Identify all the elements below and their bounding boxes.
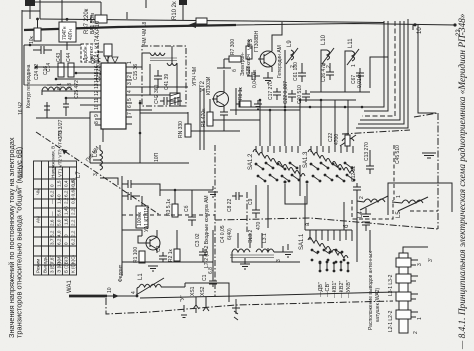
rod top line	[403, 247, 428, 253]
inductor L3.1 winding	[256, 249, 274, 252]
svg-text:SA1.3: SA1.3	[303, 151, 309, 168]
svg-text:7: 7	[127, 112, 133, 115]
ground bottom amp	[148, 266, 158, 271]
transformer T1 box	[59, 22, 76, 42]
capacitor C8b	[362, 222, 370, 231]
wire pin11 net	[66, 97, 95, 99]
wire right col	[356, 200, 358, 262]
svg-text:RN 330: RN 330	[178, 121, 184, 138]
capacitor C6	[122, 192, 140, 200]
resistor R3	[172, 204, 178, 217]
svg-text:УА1 КТ315: УА1 КТ315	[144, 207, 150, 232]
resistor R2 1k	[174, 249, 180, 261]
wire left col	[23, 45, 25, 85]
svg-text:0,01мк: 0,01мк	[357, 72, 363, 88]
ground right	[208, 186, 218, 197]
wire bottom solid bus	[140, 292, 396, 298]
wire IC top bus	[24, 84, 95, 86]
wire bus junctions	[36, 18, 39, 21]
svg-text:6,2: 6,2	[71, 238, 76, 245]
svg-text:3: 3	[276, 259, 282, 262]
arrow on diagonal	[62, 149, 68, 155]
core line	[230, 255, 274, 258]
svg-text:С8 22: С8 22	[227, 198, 233, 212]
svg-text:ДА1 К174ХА10: ДА1 К174ХА10	[95, 20, 101, 62]
svg-text:—КВ2”: —КВ2”	[339, 281, 345, 298]
wire top of IC to speaker net	[107, 45, 109, 63]
svg-text:6,8: 6,8	[208, 267, 214, 274]
svg-text:1,6: 1,6	[64, 218, 69, 225]
capacitor C17	[273, 88, 281, 100]
svg-text:С43: С43	[56, 53, 62, 62]
capacitor C13 270	[366, 162, 374, 174]
svg-text:6: 6	[127, 105, 133, 108]
svg-text:0: 0	[50, 184, 55, 187]
wire C1 down	[212, 230, 214, 276]
SA1.1 stubs	[310, 230, 352, 241]
wire top-left drop	[39, 0, 41, 19]
svg-text:6,2: 6,2	[50, 190, 55, 197]
tick on bus	[126, 12, 128, 19]
capacitor C14	[33, 46, 52, 54]
svg-text:С25 472: С25 472	[74, 80, 80, 99]
svg-text:6(40): 6(40)	[227, 228, 233, 240]
wire drop a	[259, 100, 261, 146]
svg-text:1,45: 1,45	[64, 206, 69, 215]
coil former 2	[396, 274, 411, 283]
svg-text:1,5: 1,5	[57, 180, 62, 187]
svg-text:Б(З): Б(З)	[64, 255, 69, 264]
svg-text:С1: С1	[202, 274, 208, 281]
ground C8	[361, 208, 371, 219]
svg-text:3: 3	[127, 82, 133, 85]
capacitor C1 6.8	[209, 276, 217, 287]
wire right col down	[412, 25, 414, 30]
wire L9 frame	[284, 50, 286, 107]
svg-text:L1: L1	[138, 273, 144, 280]
svg-text:22: 22	[456, 29, 462, 36]
wire vhf v4	[360, 21, 400, 120]
capacitor C12 82	[353, 183, 361, 196]
svg-text:2: 2	[359, 196, 365, 199]
svg-text:2,2: 2,2	[71, 219, 76, 226]
svg-text:4700: 4700	[334, 134, 340, 145]
svg-text:—КВ1”: —КВ1”	[332, 281, 338, 298]
wire vhf jog	[370, 57, 388, 88]
wire vhf v2	[364, 21, 388, 111]
dash-dot vertical inner	[437, 113, 439, 229]
svg-text:Расположение выводов антенных: Расположение выводов антенных	[368, 251, 374, 330]
inductor L11	[352, 51, 355, 61]
svg-text:—ДВ”: —ДВ”	[318, 282, 324, 297]
wire R36 up	[37, 19, 39, 28]
junction arrow on bus	[188, 22, 196, 28]
wire L4 left	[356, 196, 358, 201]
svg-text:транзисторов относительно выво: транзисторов относительно вывода “общий”…	[15, 147, 24, 338]
svg-text:6,2: 6,2	[57, 238, 62, 245]
wire L6	[99, 145, 101, 150]
svg-text:10: 10	[94, 104, 100, 110]
L11 arrow	[347, 49, 359, 65]
earth symbol	[181, 305, 187, 318]
wire L10 frame	[321, 50, 327, 92]
svg-text:ГТ308ВН: ГТ308ВН	[254, 31, 260, 52]
wires below U1	[102, 129, 104, 142]
svg-text:L7: L7	[76, 171, 82, 178]
SA1.2 contacts row1	[255, 162, 299, 171]
svg-text:Гетеродин АМ: Гетеродин АМ	[277, 45, 283, 78]
wire down to L1 area	[121, 262, 123, 276]
capacitor C22b	[288, 90, 296, 102]
SA1.1 contact slants	[312, 250, 342, 254]
connector XS1	[193, 297, 199, 313]
svg-text:0,4: 0,4	[64, 180, 69, 187]
wire bottom bus amp	[122, 261, 213, 263]
diode VD2	[112, 57, 118, 63]
wire C26	[329, 63, 331, 68]
svg-text:R7 300: R7 300	[230, 39, 236, 55]
svg-text:0: 0	[64, 242, 69, 245]
svg-text:С23 2200: С23 2200	[96, 60, 102, 82]
svg-text:Сб: Сб	[184, 205, 190, 212]
node dot	[29, 44, 32, 47]
wire pin lines right going down	[132, 94, 160, 96]
svg-text:L4: L4	[358, 211, 364, 218]
svg-text:2,6: 2,6	[50, 219, 55, 226]
svg-text:L9: L9	[287, 40, 293, 47]
svg-text:— 8.4.1. Принципиальная электр: — 8.4.1. Принципиальная электрическая сх…	[457, 13, 468, 350]
svg-text:—УКВ”: —УКВ”	[346, 280, 352, 298]
svg-text:С3: С3	[156, 245, 162, 252]
wire R9 top	[248, 40, 250, 46]
capacitor C8 22	[232, 192, 243, 200]
wire drop e	[320, 100, 322, 146]
caption right edge	[457, 13, 468, 350]
SA1.3 contacts row1	[310, 162, 354, 171]
coil former 3	[396, 292, 411, 301]
L1 stubs	[137, 283, 185, 288]
SA1.2 contacts row2	[257, 174, 301, 183]
svg-text:Напряжения, В: Напряжения, В	[51, 146, 56, 178]
wire C7	[191, 190, 193, 213]
pins left of U1	[95, 67, 101, 125]
wire vhf v6	[356, 19, 408, 128]
svg-text:3(И): 3(И)	[57, 255, 62, 264]
wire horizontal y163	[90, 162, 189, 164]
wire vert x300	[299, 165, 301, 196]
wire top edge	[30, 1, 101, 3]
svg-text:2,2: 2,2	[71, 230, 76, 237]
wire grid h2	[230, 109, 300, 111]
svg-text:R8 1к: R8 1к	[238, 86, 244, 100]
capacitor C41	[154, 70, 162, 88]
dash-dot horizontal mid	[342, 130, 410, 134]
wire bottom dash-dot chassis	[106, 298, 393, 314]
svg-text:—: —	[50, 211, 55, 216]
inductor L7 winding	[42, 87, 72, 90]
capacitor C20	[171, 97, 182, 105]
wire R8	[236, 103, 239, 105]
transistor Q2 VT2 circle	[214, 92, 229, 107]
core lines	[150, 58, 177, 61]
svg-text:WA1: WA1	[67, 280, 73, 293]
wire from connector	[29, 6, 31, 19]
svg-text:С4 0,05: С4 0,05	[220, 225, 226, 243]
wire R3	[174, 190, 176, 204]
svg-text:3’: 3’	[428, 258, 434, 262]
connector XS2	[203, 297, 209, 311]
resistor R8	[239, 101, 251, 107]
svg-text:ЭL3.2: ЭL3.2	[248, 229, 254, 243]
svg-text:С9: С9	[248, 198, 254, 205]
svg-text:“У”: “У”	[180, 295, 186, 302]
ferrite rod	[399, 253, 408, 333]
svg-text:4,0: 4,0	[57, 230, 62, 237]
note text left edge	[7, 137, 24, 338]
wire C9	[255, 185, 257, 206]
svg-text:9: 9	[94, 114, 100, 117]
wire pin16 net	[36, 66, 95, 68]
node 10	[413, 23, 416, 26]
svg-text:С61 180: С61 180	[293, 62, 299, 81]
inductor L5	[402, 200, 423, 203]
connector block top-left	[25, 0, 35, 6]
svg-text:1: 1	[351, 64, 357, 67]
svg-text:1: 1	[127, 61, 133, 64]
wire sec out	[171, 46, 173, 63]
wire h230	[122, 230, 142, 236]
wire pin15 net	[76, 72, 95, 74]
ground below C9	[240, 258, 250, 269]
svg-text:SA1.2: SA1.2	[248, 153, 254, 170]
svg-text:4: 4	[127, 90, 133, 93]
inductor L9	[291, 50, 294, 60]
wire pin1 to L8	[132, 53, 150, 67]
svg-text:Контур гетеродина: Контур гетеродина	[26, 64, 32, 108]
svg-text:б: б	[344, 224, 350, 228]
svg-text:13: 13	[94, 83, 100, 89]
SA1.1 top bus	[305, 229, 352, 231]
inductor L4	[364, 199, 385, 202]
svg-text:0: 0	[57, 194, 62, 197]
wire drop g	[347, 100, 349, 146]
svg-text:6,2: 6,2	[64, 190, 69, 197]
capacitor C26	[326, 68, 334, 80]
dash-dot input box top	[215, 218, 438, 229]
svg-text:L11: L11	[348, 38, 354, 48]
switch SA1.1 contact row	[308, 238, 348, 259]
resistor R7 300	[229, 56, 241, 62]
wire vertical junction col	[139, 100, 141, 163]
capacitor C61	[298, 68, 306, 82]
node dots	[259, 99, 262, 102]
wire drop d	[299, 100, 301, 146]
capacitor C9 470	[252, 206, 260, 218]
capacitor C23	[63, 98, 69, 116]
VT2 source down	[220, 105, 228, 131]
svg-text:5,2: 5,2	[50, 230, 55, 237]
svg-text:СЗ 02: СЗ 02	[195, 233, 201, 247]
wire lower bus	[24, 44, 98, 46]
svg-text:5,0: 5,0	[57, 219, 62, 226]
svg-text:SA1.1: SA1.1	[299, 233, 305, 250]
inductor L1 winding	[139, 284, 161, 287]
wire drop c	[284, 110, 286, 146]
ground input	[283, 244, 293, 257]
svg-text:С44: С44	[66, 53, 72, 62]
wire tank bottom	[36, 117, 90, 119]
wire osc-left boundary	[239, 88, 241, 107]
svg-text:470: 470	[256, 221, 262, 230]
wire L6 bottom	[100, 178, 118, 185]
svg-text:0,63: 0,63	[71, 178, 76, 187]
svg-text:L10: L10	[321, 34, 327, 45]
wire L5 ends	[392, 202, 402, 203]
connector XS3 arrow	[232, 299, 240, 320]
boundary double line	[200, 88, 204, 150]
node dots on L7 bus	[35, 66, 38, 69]
vertical dash-dot input boundary	[214, 145, 216, 296]
node 22	[453, 23, 456, 26]
inductor L10	[327, 50, 330, 60]
svg-text:5: 5	[127, 98, 133, 101]
resistor R34	[58, 63, 64, 77]
inductor L8 secondary	[167, 63, 177, 66]
capacitor C30	[104, 44, 112, 56]
band label dots	[319, 261, 350, 273]
svg-text:4: 4	[131, 291, 137, 294]
VT1 internals	[144, 230, 157, 253]
dashed box around L4	[352, 200, 393, 219]
svg-text:10: 10	[107, 287, 113, 293]
inductor L12	[340, 135, 356, 146]
wire top right connect	[418, 25, 436, 113]
capacitor C28	[247, 72, 260, 80]
L4 arrow	[360, 196, 388, 210]
svg-text:АМ: АМ	[36, 216, 41, 223]
wire vhf v1	[366, 21, 384, 107]
wire pin14 net	[56, 78, 95, 80]
resistor R5 470k	[207, 112, 213, 126]
winding stubs	[232, 233, 268, 258]
arrow on lead	[113, 294, 119, 299]
L1 arrow	[136, 278, 164, 295]
svg-text:16 Ч2: 16 Ч2	[18, 102, 24, 115]
svg-text:1,6: 1,6	[57, 197, 62, 204]
svg-text:R5 470к: R5 470к	[201, 108, 207, 127]
wire L6 tap	[93, 159, 100, 161]
resistor R10 on rail	[196, 18, 207, 24]
svg-text:L6: L6	[93, 150, 99, 157]
svg-text:2: 2	[290, 65, 296, 68]
pin numbers right	[127, 61, 133, 115]
wire speaker to rail	[100, 2, 102, 15]
svg-text:10П: 10П	[154, 152, 160, 162]
antenna WA1 thick lead	[69, 295, 107, 298]
svg-text:—: —	[50, 199, 55, 204]
svg-text:УПЧ ЧМ: УПЧ ЧМ	[192, 67, 198, 86]
svg-text:Феррит.: Феррит.	[118, 264, 124, 282]
wire L8 left	[143, 52, 150, 54]
svg-text:7,87: 7,87	[50, 255, 55, 264]
wire osc bottom bus	[240, 106, 372, 108]
wire thick bus	[24, 25, 236, 30]
wire grid h3	[213, 119, 260, 121]
node	[174, 189, 177, 192]
wire L1 to C1	[185, 282, 213, 284]
wire stub x146	[145, 0, 147, 8]
resistor R35	[68, 63, 74, 77]
svg-text:3: 3	[93, 173, 99, 176]
wire C13 net	[369, 150, 371, 162]
inductor L3.2 winding	[232, 249, 250, 252]
svg-text:Выводы: Выводы	[43, 256, 48, 273]
svg-text:К(С): К(С)	[71, 254, 76, 264]
dash-dot diagonal FM tuning link	[36, 132, 160, 215]
svg-text:R10 2к: R10 2к	[172, 1, 178, 20]
wire rail to T1	[66, 42, 68, 50]
svg-text:Режим: Режим	[36, 259, 41, 273]
svg-text:12: 12	[94, 90, 100, 96]
capacitor C32	[199, 248, 207, 262]
dashed segment L5	[410, 210, 438, 212]
dashed line detector boundary	[122, 214, 215, 216]
wire top rail A	[40, 19, 384, 23]
wire L8 bottom bus	[150, 63, 177, 95]
band contact bars	[320, 262, 348, 271]
wire L11 frame	[345, 51, 352, 92]
wire C61	[301, 63, 303, 68]
wire stub	[213, 283, 229, 302]
svg-text:10к: 10к	[29, 35, 35, 44]
dash-dot horizontal upper right	[414, 113, 438, 117]
switch SA1.2 contact row	[253, 150, 305, 177]
capacitor C3	[159, 252, 167, 262]
svg-text:11: 11	[94, 98, 100, 103]
wire to T	[274, 246, 283, 252]
svg-text:100мк: 100мк	[137, 211, 143, 226]
wire C67 down	[359, 84, 361, 92]
wire vhf v3 dashed	[362, 21, 395, 116]
svg-text:L3-1 L3-2: L3-1 L3-2	[388, 274, 394, 296]
svg-text:2: 2	[413, 331, 419, 334]
svg-text:3: 3	[417, 263, 423, 266]
svg-text:С15 36: С15 36	[133, 64, 139, 80]
svg-text:0,047мк: 0,047мк	[252, 69, 258, 88]
wire h190b	[160, 189, 213, 191]
wire L7 ends	[41, 90, 43, 95]
diode VD1	[104, 55, 110, 61]
coil former 1	[396, 258, 411, 267]
table of voltages	[34, 161, 77, 275]
wire RV	[187, 112, 189, 124]
wire dashed vert	[393, 145, 395, 200]
wire SA1.1 a stub	[304, 196, 306, 230]
wire lower pins	[132, 109, 152, 111]
svg-text:б: б	[232, 69, 238, 72]
wire mid bus	[310, 91, 370, 93]
resistor R270	[345, 135, 350, 146]
svg-text:0: 0	[64, 234, 69, 237]
capacitor C7	[188, 213, 196, 226]
svg-text:С22 0,007: С22 0,007	[283, 81, 289, 104]
capacitor C67	[356, 68, 364, 84]
svg-text:R3 5,1к: R3 5,1к	[166, 198, 172, 216]
L10 arrow	[322, 48, 334, 64]
svg-text:1: 1	[417, 317, 423, 320]
wire R34/R35 top	[60, 50, 62, 63]
wire VT3 collector up	[272, 22, 282, 45]
